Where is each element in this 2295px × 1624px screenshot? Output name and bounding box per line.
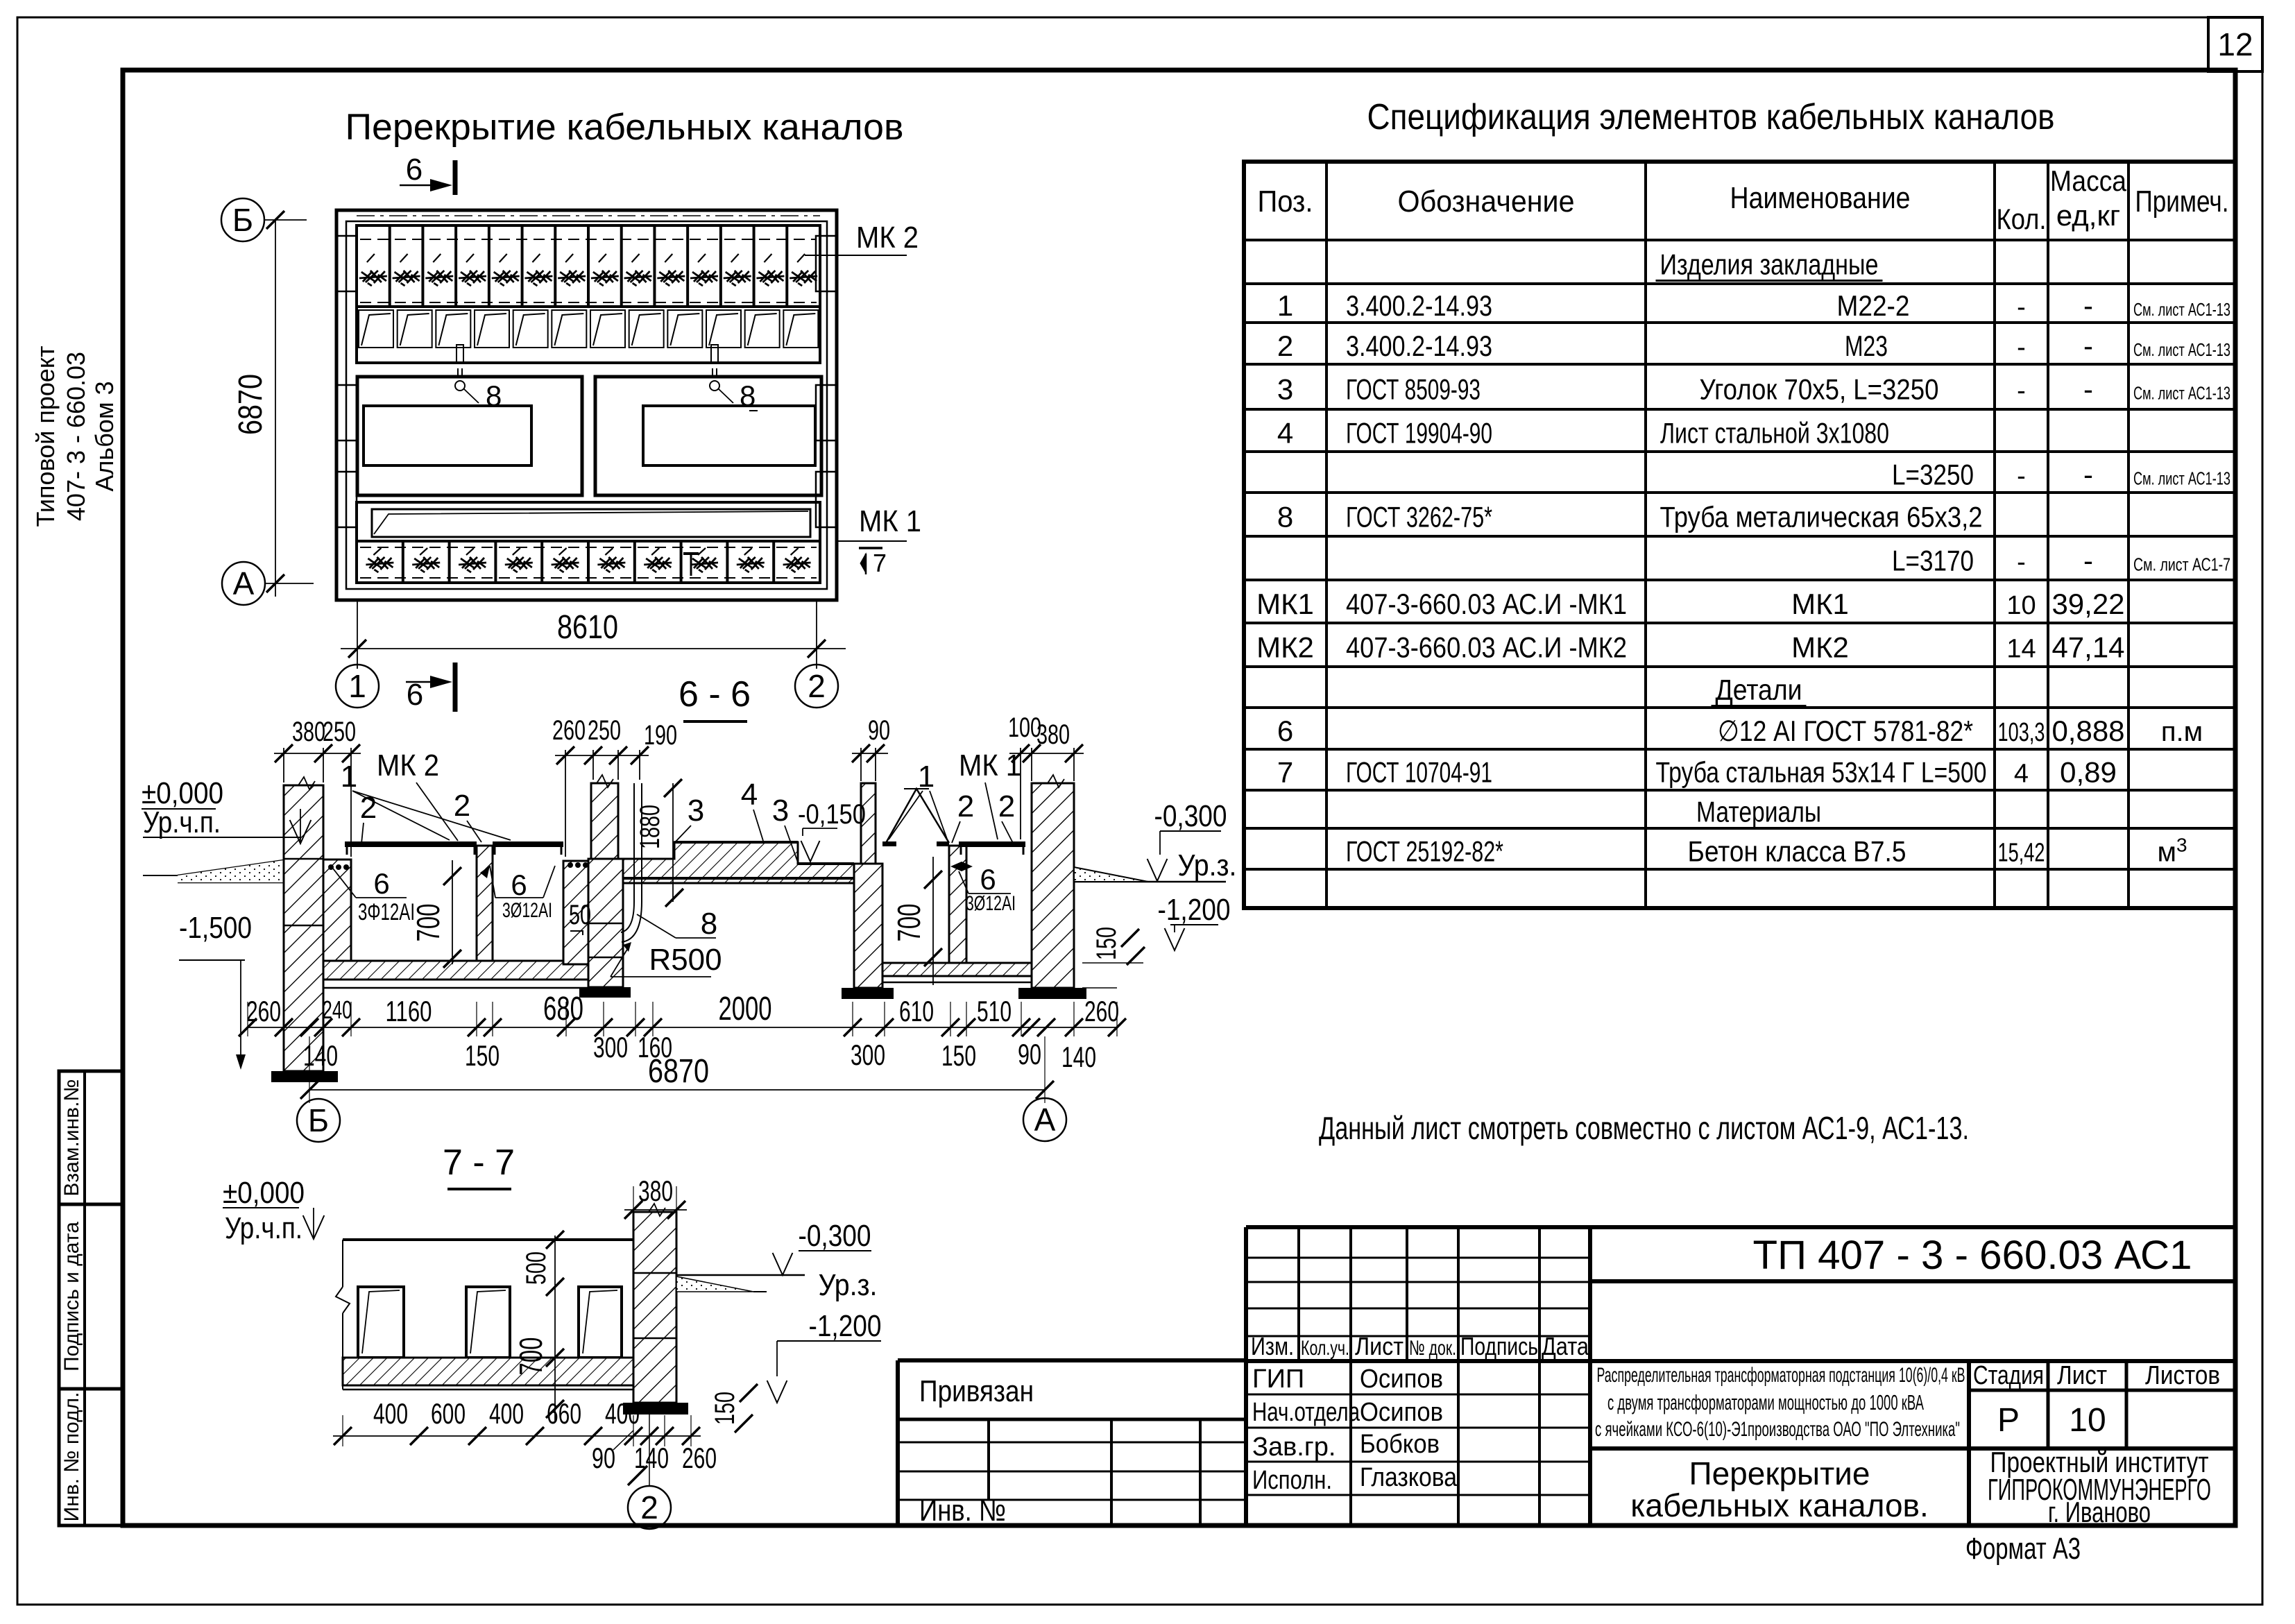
svg-text:8: 8 <box>701 907 717 941</box>
svg-text:Труба стальная 53х14 Г L=500: Труба стальная 53х14 Г L=500 <box>1656 756 1987 789</box>
svg-text:2: 2 <box>640 1489 658 1525</box>
6-6 right wall footing <box>1018 988 1086 999</box>
svg-text:2: 2 <box>957 789 974 823</box>
6-6 ground line left <box>143 860 284 882</box>
svg-text:Б: Б <box>232 202 253 238</box>
6-6 left wall <box>284 777 323 1071</box>
svg-text:Детали: Детали <box>1716 674 1802 706</box>
svg-text:-1,200: -1,200 <box>809 1309 882 1343</box>
svg-text:МК 2: МК 2 <box>377 749 439 783</box>
svg-text:300: 300 <box>593 1031 628 1063</box>
plan bottom strip frame MK1 row <box>357 502 820 583</box>
svg-text:Ур.ч.п.: Ур.ч.п. <box>143 805 221 839</box>
svg-text:510: 510 <box>977 995 1012 1027</box>
svg-text:Лист: Лист <box>1355 1332 1404 1360</box>
svg-text:7 - 7: 7 - 7 <box>443 1143 515 1183</box>
svg-text:ГОСТ 10704-91: ГОСТ 10704-91 <box>1346 756 1492 789</box>
svg-text:L=3250: L=3250 <box>1892 459 1974 491</box>
svg-text:47,14: 47,14 <box>2051 631 2124 664</box>
svg-text:L=3170: L=3170 <box>1892 545 1974 577</box>
6-6 axis bubble B bottom <box>297 1099 340 1142</box>
7-7 channel stub 2 <box>466 1287 510 1358</box>
svg-text:2: 2 <box>1277 330 1293 362</box>
svg-text:2: 2 <box>360 791 377 825</box>
plan dimension 8610 <box>341 601 846 669</box>
svg-text:14: 14 <box>2006 635 2036 664</box>
svg-text:А: А <box>233 565 255 601</box>
title block stadiya column <box>1590 1361 2235 1525</box>
svg-text:-: - <box>2017 548 2026 577</box>
svg-text:Инв. №: Инв. № <box>919 1494 1006 1528</box>
6-6 rebar 6 group left <box>328 864 415 925</box>
6-6 left wall footing <box>271 1071 338 1082</box>
svg-text:407- 3 - 660.03: 407- 3 - 660.03 <box>62 352 90 521</box>
svg-text:3.400.2-14.93: 3.400.2-14.93 <box>1346 330 1492 362</box>
svg-text:Лист: Лист <box>2057 1361 2107 1390</box>
svg-text:Бобков: Бобков <box>1360 1430 1440 1459</box>
6-6 axis bubble A bottom <box>1023 1098 1066 1141</box>
6-6 dim 90 <box>852 715 890 781</box>
plan inner wall line <box>346 221 827 589</box>
svg-text:260: 260 <box>246 995 281 1027</box>
6-6 middle wall 150 <box>477 846 493 961</box>
plan axis bubble 2 <box>795 665 838 708</box>
svg-text:См. лист АС1-7: См. лист АС1-7 <box>2133 554 2230 575</box>
7-7 channel stub 3 <box>579 1287 622 1358</box>
svg-text:150: 150 <box>1091 927 1122 960</box>
7-7 axis bubble 2 <box>628 1414 671 1529</box>
svg-text:-0,300: -0,300 <box>1154 799 1227 833</box>
svg-text:-0,150: -0,150 <box>798 799 866 830</box>
svg-text:Масса: Масса <box>2050 164 2127 197</box>
svg-text:2000: 2000 <box>719 991 772 1027</box>
svg-text:Изделия закладные: Изделия закладные <box>1660 248 1879 281</box>
svg-text:6: 6 <box>511 869 527 901</box>
plan pipe 8 right <box>710 345 733 403</box>
plan MK1 hatch cells <box>357 541 820 583</box>
svg-text:-: - <box>2083 289 2093 322</box>
svg-text:Бетон класса В7.5: Бетон класса В7.5 <box>1688 835 1906 868</box>
privyazan cell lines <box>898 1419 1246 1525</box>
plan outer wall rectangle <box>336 210 837 600</box>
svg-text:Примеч.: Примеч. <box>2135 185 2229 219</box>
7-7 level -1,200 <box>767 1309 882 1403</box>
svg-text:700: 700 <box>410 904 446 942</box>
6-6 left upstand <box>323 860 351 964</box>
svg-text:4: 4 <box>1277 417 1293 450</box>
plan big opening left inner <box>364 406 531 465</box>
6-6 label 1 left <box>341 760 511 840</box>
svg-text:15,42: 15,42 <box>1998 839 2045 868</box>
svg-text:50: 50 <box>569 900 591 930</box>
7-7 bottom dimension line <box>333 1415 701 1446</box>
svg-text:Перекрытие: Перекрытие <box>1689 1455 1870 1491</box>
svg-text:2: 2 <box>998 789 1015 823</box>
plan section cut 7 arrow <box>859 548 887 577</box>
plan section cut 7 mark in cell <box>683 554 699 576</box>
7-7 left break line <box>336 1240 350 1390</box>
6-6 level -0,150 <box>798 799 866 862</box>
7-7 dim label 90 <box>592 1430 633 1474</box>
plan axis bubble B <box>221 198 307 241</box>
svg-text:-: - <box>2017 462 2026 491</box>
svg-text:3Ø12АI: 3Ø12АI <box>502 899 552 922</box>
svg-text:с двумя трансформаторами мощно: с двумя трансформаторами мощностью до 10… <box>1607 1390 1924 1414</box>
svg-text:Данный лист смотреть совместно: Данный лист смотреть совместно с листом … <box>1319 1110 1969 1146</box>
svg-text:г. Иваново: г. Иваново <box>2048 1496 2151 1528</box>
svg-text:М22-2: М22-2 <box>1837 289 1910 322</box>
7-7 level -0,300 <box>773 1219 871 1275</box>
plan left wall piers <box>336 236 357 291</box>
svg-text:3.400.2-14.93: 3.400.2-14.93 <box>1346 289 1492 322</box>
svg-text:6: 6 <box>1277 715 1293 747</box>
svg-text:0,888: 0,888 <box>2051 715 2124 747</box>
6-6 center wall footing <box>579 987 631 998</box>
7-7 ground line right <box>676 1275 805 1292</box>
plan top strip frame MK2 row <box>357 225 820 363</box>
6-6 upstand right of channel2 <box>563 861 591 964</box>
svg-text:Исполн.: Исполн. <box>1252 1466 1332 1495</box>
7-7 wall footing <box>623 1403 688 1414</box>
6-6 level -0,300 right <box>1147 799 1227 881</box>
6-6 dim 50 <box>569 900 591 935</box>
svg-text:с ячейками КСО-6(10)-Э1произв: с ячейками КСО-6(10)-Э1производства ОАО … <box>1595 1418 1960 1441</box>
7-7 floor slab <box>343 1358 633 1390</box>
svg-text:-1,500: -1,500 <box>179 911 252 945</box>
svg-text:6: 6 <box>407 678 423 712</box>
plan big opening right inner <box>643 406 815 465</box>
svg-text:407-3-660.03 АС.И -МК1: 407-3-660.03 АС.И -МК1 <box>1346 588 1627 620</box>
6-6 bottom dimension line <box>239 1002 1126 1036</box>
svg-text:См. лист АС1-13: См. лист АС1-13 <box>2133 468 2230 489</box>
svg-text:ГОСТ 19904-90: ГОСТ 19904-90 <box>1346 417 1492 450</box>
svg-text:См. лист АС1-13: См. лист АС1-13 <box>2133 339 2230 360</box>
6-6 channel3 wall footing <box>842 988 894 999</box>
svg-text:Обозначение: Обозначение <box>1398 185 1575 219</box>
7-7 level 0,000 <box>223 1176 324 1245</box>
svg-text:Р: Р <box>1997 1402 2020 1439</box>
6-6 dim 150 right <box>1082 927 1145 988</box>
plan section cut 6 bottom <box>406 663 455 712</box>
svg-text:260: 260 <box>552 715 586 746</box>
svg-text:8: 8 <box>1277 501 1293 533</box>
svg-text:103,3: 103,3 <box>1998 718 2045 747</box>
6-6 channel floor slab left <box>323 961 623 988</box>
svg-text:7: 7 <box>873 549 887 577</box>
plan pipe 8 left <box>455 345 479 403</box>
svg-text:Нач.отдела: Нач.отдела <box>1252 1398 1360 1427</box>
signature row lines <box>1246 1394 1590 1495</box>
svg-text:Спецификация элементов кабельн: Спецификация элементов кабельных каналов <box>1367 97 2055 137</box>
svg-text:-: - <box>2083 545 2093 577</box>
svg-text:1: 1 <box>1277 289 1293 322</box>
svg-text:Формат А3: Формат А3 <box>1965 1532 2081 1566</box>
svg-text:6: 6 <box>373 867 389 900</box>
svg-text:400: 400 <box>489 1397 524 1430</box>
izm grid lines <box>1246 1227 1590 1525</box>
svg-text:407-3-660.03 АС.И -МК2: 407-3-660.03 АС.И -МК2 <box>1346 631 1627 664</box>
6-6 label 2 c <box>952 789 974 843</box>
svg-text:140: 140 <box>303 1039 338 1072</box>
plan big opening left <box>357 377 582 495</box>
svg-text:380: 380 <box>292 717 325 747</box>
6-6 dim 100 380 right wall <box>1008 712 1084 839</box>
6-6 total dim 6870 <box>300 1036 1054 1103</box>
svg-text:Инв. № подл.: Инв. № подл. <box>60 1392 83 1522</box>
7-7 dim 150 <box>710 1384 758 1433</box>
svg-text:Привязан: Привязан <box>919 1374 1034 1408</box>
left margin stamp boxes <box>59 1071 123 1525</box>
6-6 level -1,500 <box>179 911 252 1070</box>
svg-text:ГОСТ 8509-93: ГОСТ 8509-93 <box>1346 373 1481 406</box>
svg-text:R500: R500 <box>649 943 722 977</box>
7-7 vertical dims 500 700 <box>513 1231 564 1421</box>
svg-text:90: 90 <box>592 1442 615 1474</box>
svg-text:150: 150 <box>465 1039 500 1072</box>
plan centerline top <box>357 215 820 216</box>
7-7 wall <box>633 1204 676 1403</box>
spec table column lines <box>1326 162 2128 908</box>
svg-text:1160: 1160 <box>386 995 432 1027</box>
svg-text:±0,000: ±0,000 <box>223 1176 305 1210</box>
svg-text:Взам.инв.№: Взам.инв.№ <box>60 1079 83 1196</box>
6-6 bent pipe R500 <box>621 783 642 942</box>
svg-text:-: - <box>2083 330 2093 362</box>
svg-text:-: - <box>2017 377 2026 406</box>
6-6 label MK2 <box>377 749 458 841</box>
svg-text:МК 1: МК 1 <box>859 504 921 538</box>
spec table row lines <box>1244 240 2235 869</box>
svg-text:3: 3 <box>688 794 704 828</box>
svg-text:10: 10 <box>2069 1402 2106 1439</box>
svg-text:Поз.: Поз. <box>1258 185 1313 219</box>
svg-text:150: 150 <box>710 1392 740 1425</box>
6-6 label 8 with leader <box>637 907 717 941</box>
svg-text:МК 1: МК 1 <box>959 749 1021 783</box>
svg-text:39,22: 39,22 <box>2051 588 2124 620</box>
svg-text:МК1: МК1 <box>1791 588 1849 620</box>
svg-text:Подпись и дата: Подпись и дата <box>60 1222 83 1371</box>
plan section cut 6 top <box>400 153 455 195</box>
svg-text:Листов: Листов <box>2145 1361 2220 1390</box>
sheet number box <box>2208 17 2262 71</box>
svg-text:№ док.: № док. <box>1409 1337 1456 1360</box>
6-6 label 3 a <box>676 794 704 841</box>
6-6 level 0.000 left <box>142 776 311 844</box>
svg-text:3: 3 <box>1277 373 1293 406</box>
svg-text:400: 400 <box>605 1397 640 1430</box>
svg-text:ГОСТ 3262-75*: ГОСТ 3262-75* <box>1346 501 1492 533</box>
svg-text:Материалы: Материалы <box>1696 796 1821 828</box>
6-6 label 4 <box>741 778 763 841</box>
6-6 label 2 b <box>454 789 481 842</box>
svg-text:1880: 1880 <box>635 805 665 849</box>
plan MK2 cover cells <box>357 225 820 307</box>
svg-text:Подпись: Подпись <box>1460 1332 1538 1360</box>
6-6 middle wall 150 right <box>949 846 966 963</box>
6-6 cover ends channel3 <box>882 841 949 846</box>
svg-text:Изм.: Изм. <box>1251 1332 1294 1360</box>
svg-text:∅12 АI ГОСТ 5781-82*: ∅12 АI ГОСТ 5781-82* <box>1718 715 1973 747</box>
6-6 center wall lower <box>588 859 623 987</box>
svg-text:6: 6 <box>980 863 996 896</box>
svg-text:-1,200: -1,200 <box>1158 893 1231 927</box>
svg-text:6 - 6: 6 - 6 <box>679 674 751 715</box>
6-6 right wall <box>1032 775 1074 988</box>
svg-text:610: 610 <box>899 995 934 1027</box>
6-6 channel3 cover peak element 1 <box>886 789 949 843</box>
svg-text:0,89: 0,89 <box>2060 756 2117 789</box>
svg-text:МК2: МК2 <box>1791 631 1849 664</box>
svg-text:кабельных каналов.: кабельных каналов. <box>1630 1487 1929 1523</box>
svg-text:1: 1 <box>348 668 366 704</box>
svg-text:3Φ12АI: 3Φ12АI <box>358 899 415 925</box>
svg-text:240: 240 <box>323 995 352 1024</box>
svg-text:3Ø12АI: 3Ø12АI <box>966 892 1016 915</box>
plan axis bubble 1 <box>336 665 379 708</box>
svg-text:Дата: Дата <box>1542 1332 1589 1360</box>
6-6 label 2 d <box>998 789 1015 843</box>
6-6 label 1 right <box>889 760 948 841</box>
plan MK1 long cover plate <box>372 509 810 537</box>
svg-text:300: 300 <box>851 1038 885 1071</box>
svg-text:190: 190 <box>644 720 677 751</box>
svg-text:Труба металическая 65х3,2: Труба металическая 65х3,2 <box>1660 501 1983 533</box>
svg-text:260: 260 <box>1084 995 1119 1027</box>
plan axis bubble A <box>222 562 314 605</box>
6-6 label MK1 <box>959 749 1021 839</box>
svg-text:Лист стальной 3х1080: Лист стальной 3х1080 <box>1660 417 1889 450</box>
svg-text:М23: М23 <box>1845 330 1888 362</box>
svg-text:4: 4 <box>2014 760 2029 789</box>
svg-text:ГИП: ГИП <box>1252 1365 1304 1394</box>
svg-text:Ур.ч.п.: Ур.ч.п. <box>225 1211 302 1245</box>
svg-text:150: 150 <box>941 1039 976 1072</box>
svg-text:7: 7 <box>1277 756 1293 789</box>
svg-text:Уголок 70х5, L=3250: Уголок 70х5, L=3250 <box>1700 373 1939 406</box>
svg-text:3: 3 <box>772 794 789 828</box>
svg-text:Наименование: Наименование <box>1730 181 1911 215</box>
6-6 channel3-4 floor slab <box>882 963 1032 982</box>
svg-text:380: 380 <box>1036 719 1070 750</box>
svg-text:1: 1 <box>341 760 357 794</box>
svg-text:ТП 407 - 3 - 660.03 АС1: ТП 407 - 3 - 660.03 АС1 <box>1753 1233 2192 1278</box>
svg-text:140: 140 <box>1061 1041 1096 1073</box>
svg-text:ГОСТ 25192-82*: ГОСТ 25192-82* <box>1346 835 1503 868</box>
svg-text:1: 1 <box>918 760 935 794</box>
svg-text:680: 680 <box>543 991 583 1027</box>
6-6 cover bar channel2 <box>493 841 563 855</box>
svg-text:700: 700 <box>891 904 927 942</box>
6-6 ground line right <box>1074 867 1226 882</box>
plan big opening right <box>595 377 821 495</box>
6-6 level -1,200 <box>1158 893 1231 950</box>
svg-text:Осипов: Осипов <box>1360 1365 1443 1394</box>
svg-text:Зав.гр.: Зав.гр. <box>1252 1433 1336 1462</box>
6-6 dim 260 250 190 center <box>552 715 677 857</box>
section 6-6 title <box>679 674 751 721</box>
svg-text:-: - <box>2017 333 2026 362</box>
svg-text:п.м: п.м <box>2161 717 2203 747</box>
svg-text:Альбом 3: Альбом 3 <box>90 381 119 491</box>
svg-text:6870: 6870 <box>232 374 269 435</box>
svg-text:МК 2: МК 2 <box>856 221 919 255</box>
6-6 label R500 <box>611 942 722 977</box>
section 7-7 title <box>443 1143 515 1189</box>
svg-text:Типовой проект: Типовой проект <box>31 345 60 527</box>
svg-text:380: 380 <box>638 1174 673 1207</box>
6-6 rebar 6 group right <box>950 862 1016 915</box>
6-6 dim 1880 <box>635 779 683 907</box>
title block TP cell line <box>1590 1279 2235 1283</box>
plan right wall piers <box>816 236 837 291</box>
svg-text:Стадия: Стадия <box>1973 1361 2044 1390</box>
svg-text:-: - <box>2083 459 2093 491</box>
6-6 dim 380 250 left wall <box>274 717 361 857</box>
6-6 dim 700 left <box>410 860 461 968</box>
svg-text:-0,300: -0,300 <box>799 1219 871 1253</box>
6-6 center slab element 4 <box>623 842 854 883</box>
svg-text:90: 90 <box>1018 1038 1041 1070</box>
plan vertical dimension 6870 <box>232 221 275 597</box>
svg-text:6: 6 <box>406 153 423 187</box>
svg-text:См. лист АС1-13: См. лист АС1-13 <box>2133 383 2230 404</box>
svg-text:Кол.: Кол. <box>1997 203 2047 235</box>
svg-text:Глазкова: Глазкова <box>1360 1463 1458 1492</box>
svg-text:А: А <box>1034 1102 1056 1138</box>
svg-text:660: 660 <box>547 1397 581 1430</box>
svg-text:Ур.з.: Ур.з. <box>1178 848 1237 882</box>
svg-text:Распределительная трансформато: Распределительная трансформаторная подст… <box>1597 1364 1965 1387</box>
6-6 center wall upper <box>591 775 618 859</box>
svg-text:600: 600 <box>431 1397 466 1430</box>
7-7 floor line <box>343 1238 633 1241</box>
plan label MK1 with leader <box>838 504 921 541</box>
svg-text:-: - <box>2017 293 2026 322</box>
6-6 label 3 b <box>772 794 798 862</box>
6-6 dim 700 right <box>891 857 942 985</box>
svg-text:250: 250 <box>323 717 356 747</box>
svg-text:140: 140 <box>634 1442 669 1474</box>
7-7 dim 380 top <box>624 1174 687 1219</box>
svg-text:500: 500 <box>521 1251 552 1285</box>
svg-text:МК1: МК1 <box>1256 588 1314 620</box>
svg-text:Б: Б <box>308 1102 329 1138</box>
svg-text:Осипов: Осипов <box>1360 1398 1443 1427</box>
svg-text:8610: 8610 <box>557 609 618 646</box>
svg-text:2: 2 <box>808 668 826 704</box>
svg-text:260: 260 <box>682 1442 717 1474</box>
svg-text:Кол.уч.: Кол.уч. <box>1301 1337 1349 1360</box>
7-7 channel stub 1 <box>358 1287 404 1358</box>
svg-text:6870: 6870 <box>648 1053 709 1090</box>
svg-text:12: 12 <box>2217 26 2253 62</box>
6-6 wall 90 left of channel3 <box>854 783 882 988</box>
6-6 MK2 cover bar <box>345 841 477 855</box>
svg-text:90: 90 <box>868 715 890 746</box>
svg-text:400: 400 <box>373 1397 408 1430</box>
svg-text:700: 700 <box>513 1337 549 1376</box>
plan embedded plate cells row <box>359 310 818 348</box>
svg-text:250: 250 <box>588 715 621 746</box>
6-6 MK1 cover bar <box>959 841 1025 855</box>
svg-text:Перекрытие кабельных каналов: Перекрытие кабельных каналов <box>345 107 904 148</box>
6-6 label 2 a <box>360 791 377 844</box>
svg-text:-: - <box>2083 373 2093 406</box>
svg-text:ед,кг: ед,кг <box>2056 199 2120 232</box>
spec table outer border <box>1244 162 2235 908</box>
svg-text:10: 10 <box>2006 591 2036 620</box>
